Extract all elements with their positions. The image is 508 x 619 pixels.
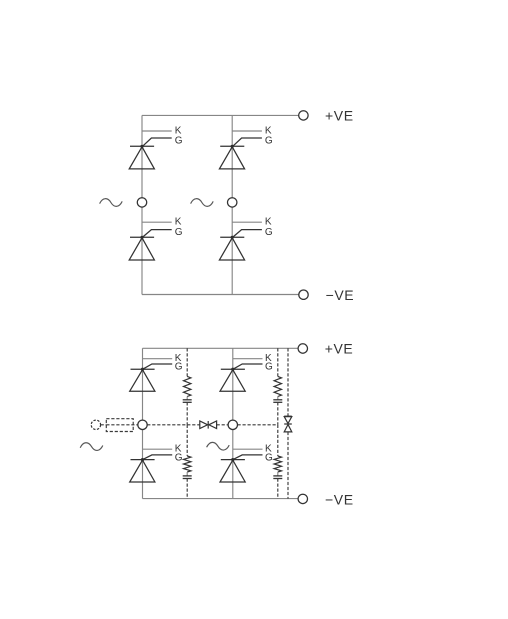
wire: -VE bottom rail (bridge 2) bbox=[143, 498, 299, 500]
wire: right leg (bridge 1) bbox=[231, 115, 233, 294]
wire: dashed, +VE rail to R1 bbox=[186, 348, 188, 376]
wire: R3 to C3 bbox=[277, 397, 279, 400]
wire: dashed, C4 to -VE rail bbox=[277, 479, 279, 499]
svg-text:G: G bbox=[175, 227, 183, 238]
wire: dashed, +VE rail to clamp Z1 bbox=[287, 348, 289, 416]
svg-text:+VE: +VE bbox=[325, 108, 354, 124]
node: AC phase 2 (bridge 2) bbox=[228, 420, 237, 429]
thyristor SCR1 (top-left) bbox=[129, 125, 183, 169]
thyristor SCR7 (top-right) bbox=[220, 353, 273, 391]
wire: dashed, AC terminal to fuse bbox=[101, 424, 107, 426]
svg-text:G: G bbox=[175, 452, 183, 463]
svg-text:−VE: −VE bbox=[326, 287, 355, 303]
thyristor SCR8 (bottom-right) bbox=[220, 444, 273, 483]
terminal -VE (bridge 2) bbox=[298, 494, 307, 503]
thyristor SCR6 (bottom-left) bbox=[130, 444, 183, 483]
capacitor C3 (snubber) bbox=[273, 400, 282, 403]
terminal +VE (bridge 2) bbox=[298, 344, 307, 353]
svg-text:+VE: +VE bbox=[325, 341, 354, 357]
terminal +VE (bridge 1) bbox=[299, 111, 308, 120]
resistor R1 (snubber) bbox=[184, 376, 191, 396]
wire: dashed AC link, right node to snubber 2 bbox=[238, 424, 278, 426]
wire: left leg (bridge 2) bbox=[142, 348, 144, 498]
wire: dashed, C1 to AC link bbox=[186, 402, 188, 425]
thyristor SCR5 (top-left) bbox=[130, 353, 183, 391]
fuse F1 (dashed box) bbox=[106, 419, 133, 432]
wire: R2 to C2 bbox=[186, 472, 188, 476]
thyristor SCR4 (bottom-right) bbox=[219, 217, 273, 261]
AC source mark ~ phase 2 (bridge 1) bbox=[191, 199, 214, 207]
wire: left leg (bridge 1) bbox=[141, 115, 143, 294]
diode pair Z1/Z2 (series clamp) bbox=[284, 416, 292, 432]
thyristor SCR2 (bottom-left) bbox=[129, 217, 183, 261]
svg-text:G: G bbox=[175, 361, 183, 372]
capacitor C1 (snubber) bbox=[183, 400, 192, 403]
resistor R2 (snubber) bbox=[184, 456, 191, 472]
AC source mark ~ phase 1 (bridge 1) bbox=[100, 199, 123, 207]
node: AC phase 2 (bridge 1) bbox=[228, 198, 237, 207]
wire: dashed, AC link to R2 bbox=[186, 425, 188, 456]
capacitor C4 (snubber) bbox=[273, 476, 282, 479]
wire: dashed AC link, clamp diodes to right node bbox=[217, 424, 229, 426]
AC source mark ~ phase 2 (bridge 2) bbox=[207, 442, 230, 450]
capacitor C2 (snubber) bbox=[183, 476, 192, 479]
wire: -VE bottom rail (bridge 1) bbox=[142, 294, 299, 296]
resistor R4 (snubber) bbox=[274, 456, 281, 472]
node: AC phase 1 (bridge 1) bbox=[137, 198, 146, 207]
svg-text:G: G bbox=[175, 135, 183, 146]
diode pair D1/D2 (back-to-back, AC link) bbox=[200, 421, 217, 429]
AC source mark ~ phase 1 (bridge 2) bbox=[80, 443, 103, 451]
thyristor SCR3 (top-right) bbox=[219, 125, 273, 169]
resistor R3 (snubber) bbox=[274, 376, 281, 396]
wire: R4 to C4 bbox=[277, 472, 279, 476]
svg-text:K: K bbox=[175, 217, 182, 228]
svg-text:−VE: −VE bbox=[325, 492, 354, 508]
wire: dashed, C3 to AC link bbox=[277, 402, 279, 425]
terminal: AC input (dashed circle) bbox=[91, 420, 100, 429]
wire: R1 to C1 bbox=[186, 397, 188, 400]
svg-text:K: K bbox=[265, 217, 272, 228]
wire: dashed, +VE rail to R3 bbox=[277, 348, 279, 376]
wire: +VE top rail (bridge 2) bbox=[143, 347, 299, 349]
wire: dashed, through fuse to left node bbox=[106, 424, 138, 426]
wire: dashed AC link, left node to clamp diodes bbox=[147, 424, 200, 426]
svg-text:G: G bbox=[265, 452, 273, 463]
wire: dashed, clamp Z2 to -VE rail bbox=[287, 432, 289, 499]
node: AC phase 1 (bridge 2) bbox=[138, 420, 147, 429]
svg-text:G: G bbox=[265, 227, 273, 238]
wire: +VE top rail (bridge 1) bbox=[142, 114, 299, 116]
svg-text:G: G bbox=[265, 361, 273, 372]
wire: dashed, AC link to R4 bbox=[277, 425, 279, 456]
terminal -VE (bridge 1) bbox=[299, 290, 308, 299]
wire: dashed, C2 to -VE rail bbox=[186, 479, 188, 499]
wire: right leg (bridge 2) bbox=[232, 348, 234, 498]
svg-text:G: G bbox=[265, 135, 273, 146]
